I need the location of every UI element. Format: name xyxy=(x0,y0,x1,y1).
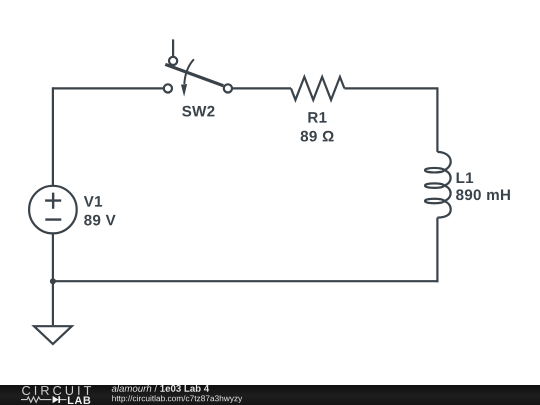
label V1 xyxy=(84,196,102,206)
footer credit: author (italic) xyxy=(112,385,152,392)
wire: bottom horizontal rail xyxy=(53,280,439,282)
wire: inductor L1 bottom to bottom-right corner xyxy=(436,218,438,283)
switch SW2 pole circle (top) xyxy=(169,57,177,65)
wire: left vertical rail, top corner down to V1 xyxy=(52,87,54,186)
CircuitLab logo diode xyxy=(53,396,59,403)
resistor R1 zigzag xyxy=(291,77,344,100)
wire: top horizontal, left rail to switch left terminal xyxy=(53,87,164,89)
CircuitLab logo resistor squiggle xyxy=(21,397,51,402)
wire: ground stem xyxy=(52,281,54,325)
wire: V1 bottom to junction xyxy=(52,233,54,281)
switch SW2 right terminal circle xyxy=(224,84,232,92)
wire: switch right terminal to resistor R1 xyxy=(232,87,291,89)
label R1 value 89 Ω xyxy=(301,131,334,142)
CircuitLab logo wordmark CIRCUIT xyxy=(22,386,91,395)
footer bar xyxy=(0,385,540,405)
voltage source V1 circle xyxy=(29,186,77,234)
wire: resistor R1 to top-right corner down to inductor L1 xyxy=(344,88,437,151)
label R1 xyxy=(308,112,326,122)
footer credit: separator xyxy=(154,385,157,392)
switch SW2 arrowhead xyxy=(181,84,187,97)
ground symbol xyxy=(34,326,72,344)
footer credit: url xyxy=(112,395,242,403)
junction node dot xyxy=(50,278,56,284)
switch SW2 actuation arrow arc xyxy=(184,59,194,84)
footer credit: title (bold) xyxy=(160,385,209,392)
CircuitLab logo wordmark LAB xyxy=(68,397,90,405)
switch SW2 blade xyxy=(165,64,223,85)
switch SW2 left terminal circle xyxy=(164,84,172,92)
voltage source V1 minus sign xyxy=(45,218,61,220)
wire: switch SW2 top stub xyxy=(172,39,174,56)
label L1 value 890 mH xyxy=(456,189,510,200)
label V1 value 89 V xyxy=(84,215,115,226)
label L1 xyxy=(457,173,474,183)
inductor L1 coil xyxy=(425,152,451,218)
label SW2 xyxy=(182,106,214,117)
voltage source V1 plus sign xyxy=(45,193,61,209)
